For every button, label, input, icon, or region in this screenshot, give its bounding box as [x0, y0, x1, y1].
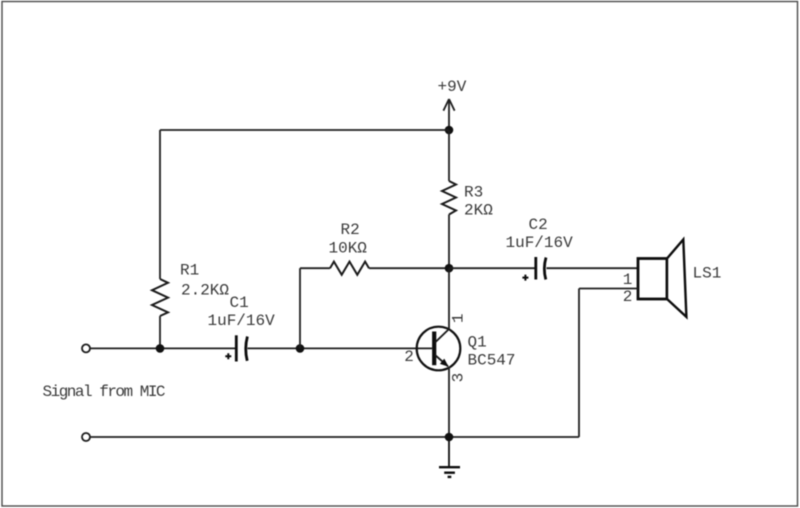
wire C1 to base: [248, 347, 433, 349]
wire node to C2: [449, 267, 535, 269]
power +9V: [443, 99, 454, 130]
svg-text:C2: C2: [529, 216, 548, 234]
wire R2 right lead: [369, 267, 449, 269]
svg-text:+9V: +9V: [438, 78, 467, 96]
svg-text:3: 3: [449, 373, 467, 383]
junction collector node: [445, 264, 454, 273]
wire speaker pin 2 vertical: [578, 289, 580, 438]
capacitor C1: [225, 335, 247, 361]
capacitor C2: [522, 257, 546, 281]
wire emitter: [448, 367, 450, 438]
resistor R2: [330, 262, 369, 275]
svg-text:Signal from MIC: Signal from MIC: [43, 383, 165, 401]
svg-text:2KΩ: 2KΩ: [464, 202, 493, 220]
wire R3 bottom lead: [448, 215, 450, 269]
svg-text:2: 2: [623, 288, 633, 306]
junction R2 tap node: [296, 344, 305, 353]
svg-text:LS1: LS1: [693, 265, 722, 283]
resistor R3: [442, 181, 456, 215]
svg-text:10KΩ: 10KΩ: [329, 240, 368, 258]
svg-text:C1: C1: [230, 294, 249, 312]
wire C2 to speaker pin 1: [547, 267, 639, 269]
svg-text:Q1: Q1: [468, 334, 487, 352]
svg-text:1: 1: [449, 313, 467, 323]
wire speaker pin 2 stub: [579, 288, 638, 290]
wire R1 bottom lead: [159, 316, 161, 348]
resistor R1: [152, 279, 168, 316]
wire bottom horizontal: [90, 436, 579, 438]
node VCC junction: [445, 126, 454, 135]
svg-text:R1: R1: [180, 262, 199, 280]
transistor Q1: [417, 327, 461, 371]
svg-text:R3: R3: [464, 184, 483, 202]
wire collector: [448, 268, 450, 329]
wire VCC top horizontal: [160, 129, 449, 131]
junction emitter/ground node: [445, 433, 454, 442]
svg-text:1uF/16V: 1uF/16V: [208, 312, 276, 330]
svg-text:1: 1: [623, 271, 633, 289]
ground: [439, 441, 460, 477]
svg-text:BC547: BC547: [468, 352, 516, 370]
wire R3 top lead: [448, 130, 450, 181]
wire R1 top lead: [159, 130, 161, 279]
terminal input signal: [82, 344, 90, 352]
wire input to C1: [90, 347, 236, 349]
svg-text:2: 2: [404, 348, 414, 366]
svg-text:2.2KΩ: 2.2KΩ: [181, 282, 229, 300]
wire R2 left lead: [300, 267, 330, 269]
speaker LS1: [638, 240, 686, 317]
terminal ground return: [82, 433, 90, 441]
svg-text:R2: R2: [341, 221, 360, 239]
wire R2 left vertical: [299, 268, 301, 348]
junction R1/input node: [156, 344, 165, 353]
svg-text:1uF/16V: 1uF/16V: [506, 234, 574, 252]
